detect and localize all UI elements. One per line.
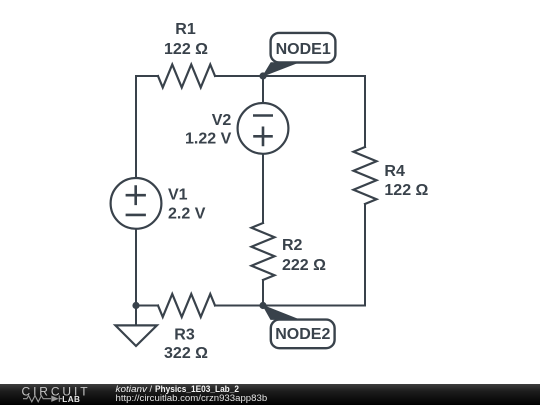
svg-text:http://circuitlab.com/crzn933a: http://circuitlab.com/crzn933app83b — [116, 393, 268, 403]
label R1 name — [175, 21, 196, 38]
svg-text:122 Ω: 122 Ω — [384, 182, 428, 199]
wire NODE1 down to V2 — [262, 76, 264, 103]
node NODE2 callout — [263, 306, 335, 349]
svg-text:R1: R1 — [175, 21, 196, 38]
svg-text:122 Ω: 122 Ω — [164, 41, 208, 58]
voltage source V2 — [238, 103, 289, 154]
ground symbol — [115, 306, 156, 347]
footer logo resistor squiggle and diode — [23, 396, 62, 402]
svg-text:V2: V2 — [212, 112, 232, 129]
node NODE1 callout — [263, 33, 335, 76]
label V1 name — [168, 186, 188, 203]
wire top-left: from V1 top up and right to R1 — [136, 76, 158, 178]
footer CircuitLab logo wordmark CIRCUIT — [22, 385, 91, 399]
label R4 value 122 ohm — [384, 182, 428, 199]
wire R2 bottom to NODE2 — [262, 280, 264, 306]
svg-text:R2: R2 — [282, 237, 303, 254]
footer url line — [116, 393, 268, 403]
wire NODE2 to R3 — [215, 305, 263, 307]
svg-text:322 Ω: 322 Ω — [164, 345, 208, 362]
label V2 value 1.22 V — [185, 131, 232, 148]
svg-text:NODE1: NODE1 — [276, 41, 331, 58]
resistor R1 — [158, 65, 215, 88]
node NODE2 junction dot — [259, 302, 266, 309]
svg-text:222 Ω: 222 Ω — [282, 257, 326, 274]
svg-text:R3: R3 — [174, 326, 195, 343]
wire NODE1 to top-right corner down to R4 — [263, 76, 365, 147]
footer logo word LAB — [62, 395, 80, 404]
voltage source V1 — [111, 178, 162, 229]
wire V2 bottom to R2 — [262, 154, 264, 223]
svg-text:V1: V1 — [168, 186, 188, 203]
footer bar — [0, 384, 540, 405]
label R2 value 222 ohm — [282, 257, 326, 274]
wire bottom-left junction up to V1 — [135, 229, 137, 306]
label R4 name — [384, 163, 405, 180]
wire R1 right to NODE1 — [215, 75, 263, 77]
footer title line: kotianv / Physics_1E03_Lab_2 — [116, 384, 240, 394]
label V2 name — [212, 112, 232, 129]
label R3 value 322 ohm — [164, 345, 208, 362]
label R1 value 122 ohm — [164, 41, 208, 58]
node ground junction dot — [132, 302, 139, 309]
resistor R3 — [158, 294, 215, 317]
wire R4 bottom to bottom-right corner to NODE2 — [263, 204, 365, 306]
svg-text:R4: R4 — [384, 163, 405, 180]
svg-text:NODE2: NODE2 — [275, 326, 330, 343]
resistor R2 — [252, 223, 275, 280]
svg-text:LAB: LAB — [62, 395, 80, 404]
label R3 name — [174, 326, 195, 343]
label R2 name — [282, 237, 303, 254]
resistor R4 — [354, 147, 377, 204]
label V1 value 2.2 V — [168, 205, 206, 222]
wire R3 left to bottom-left junction — [136, 305, 158, 307]
svg-text:1.22 V: 1.22 V — [185, 131, 232, 148]
node NODE1 junction dot — [259, 72, 266, 79]
svg-text:2.2 V: 2.2 V — [168, 205, 206, 222]
